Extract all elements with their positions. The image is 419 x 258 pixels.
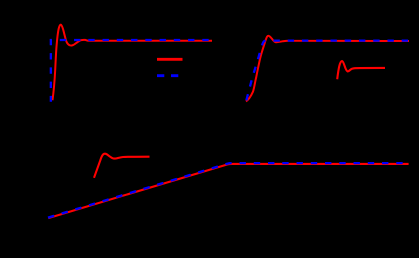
top-left legend: red solid sample line [157, 58, 183, 61]
bottom inset: red response curve [94, 154, 150, 178]
top-left subplot: blue dashed reference step [51, 40, 212, 102]
top-left subplot: red response curve [53, 25, 213, 101]
bottom subplot: blue dashed reference ramp [48, 163, 409, 218]
top-right inset: red response curve [337, 61, 385, 79]
top-right subplot: blue dashed reference ramp-step [246, 41, 409, 103]
bottom subplot: red response ramp [48, 164, 408, 218]
top-right subplot: red response curve [246, 36, 409, 102]
top-left legend: blue dashed sample line [157, 74, 179, 77]
